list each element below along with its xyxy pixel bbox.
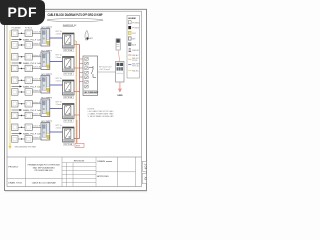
wire string 1 A1-A2 with connector xyxy=(18,33,25,34)
sheet inner border frame xyxy=(7,11,142,186)
svg-text:3. JALUR KABEL SESUAI GBR: 3. JALUR KABEL SESUAI GBR xyxy=(88,115,115,118)
svg-text:GROUNDING SYSTEM: GROUNDING SYSTEM xyxy=(15,146,37,148)
svg-text:DRAW. TITLE: DRAW. TITLE xyxy=(8,181,22,184)
cable arrow annotation string 2 xyxy=(12,62,46,65)
SCC combiner unit 4 box with equipment icon xyxy=(41,99,50,117)
sheet bottom shadow xyxy=(5,191,147,192)
cable arrow annotation string 3 xyxy=(12,86,46,89)
combiner main breaker symbol xyxy=(89,66,96,78)
inverter 2 box xyxy=(63,57,75,72)
cable arrow annotation string 1 xyxy=(12,39,46,42)
legend item: inverter xyxy=(128,37,131,40)
svg-text:A3: A3 xyxy=(143,177,147,181)
svg-text:PEMBANGUNAN PLTS TERPUSAT: PEMBANGUNAN PLTS TERPUSAT xyxy=(28,164,61,167)
legend item: string cable (purple) xyxy=(128,64,131,66)
wire string 4 rowB to combiner icon xyxy=(32,114,43,116)
svg-text:LEGEND: LEGEND xyxy=(128,18,137,20)
DC wire unit 4 to inverter (purple) xyxy=(50,102,63,109)
PV string 5 module box A1 xyxy=(12,124,19,131)
svg-text:+ BC 10 mm2: + BC 10 mm2 xyxy=(99,69,110,71)
SCC combiner unit 3 box with equipment icon xyxy=(41,76,50,94)
PV string 1 module box A2 xyxy=(25,30,32,37)
legend item: DC cable (orange) xyxy=(128,58,131,60)
inverter 3 box xyxy=(63,80,75,95)
notes text block xyxy=(88,108,115,118)
svg-text:NYY: NYY xyxy=(76,145,81,147)
wire string 3 A1-A2 with connector xyxy=(18,80,25,81)
PV string 4 module box B1 xyxy=(12,112,19,119)
svg-text:PV1-F: PV1-F xyxy=(132,60,138,62)
legend item: AC box (gray) xyxy=(128,43,131,46)
AC combiner box panel xyxy=(83,56,99,96)
wire string 2 B1-B2 with connector xyxy=(18,68,25,69)
title block: revision table xyxy=(62,157,96,187)
wire string 3 rowA to combiner icon, label xyxy=(32,78,43,80)
combiner breaker cell 4 xyxy=(85,71,88,74)
svg-text:INV 3kVA: INV 3kVA xyxy=(64,96,72,99)
sheet number margin boxes (rotated) xyxy=(142,161,147,171)
PV string 4 module box A1 xyxy=(12,101,19,108)
orange grounding wire from inverter 1 xyxy=(74,41,76,145)
left yellow ground wire (vertical) xyxy=(9,30,11,144)
PV string 2 module box A1 xyxy=(12,54,19,61)
svg-text:2.5mm: 2.5mm xyxy=(56,127,62,129)
PV string 5 module box A2 xyxy=(25,124,32,131)
inverter 1 name label below xyxy=(64,49,74,52)
combiner bottom label strip xyxy=(84,90,97,94)
inverter 4 name label below xyxy=(64,120,74,123)
inverter 5 name label below xyxy=(64,143,74,146)
legend item: AC cable (red) xyxy=(128,54,131,56)
svg-text:2.5mm: 2.5mm xyxy=(56,33,62,35)
svg-text:INV 2kVA: INV 2kVA xyxy=(64,73,72,76)
svg-text:1. ALL KABEL TRAY HOTDIP GALV: 1. ALL KABEL TRAY HOTDIP GALV xyxy=(88,110,115,113)
wire string 2 rowB to combiner icon xyxy=(32,67,43,69)
svg-text:2.5mm: 2.5mm xyxy=(56,57,62,59)
red drop wire to bottom label xyxy=(76,120,78,146)
wire string 3 rowB to combiner icon xyxy=(32,90,43,92)
svg-text:PV ARRAY: PV ARRAY xyxy=(12,27,22,30)
svg-text:CABLE BLOCK DIAGRAM: CABLE BLOCK DIAGRAM xyxy=(32,181,56,184)
DC wire unit 2 to inverter (purple) xyxy=(50,55,63,62)
svg-text:KBL BC: KBL BC xyxy=(132,70,139,72)
wire string 5 B1-B2 with connector xyxy=(18,138,25,139)
wire combiner to kwh meter with label xyxy=(98,67,116,72)
AC wire inverter 5 to bus (red) xyxy=(74,138,80,140)
PV string 3 module box A1 xyxy=(12,77,19,84)
combiner breaker cell 1 xyxy=(85,58,88,61)
DC wire unit 1 to inverter (purple) xyxy=(50,31,63,38)
inverter 3 name label below xyxy=(64,96,74,99)
svg-text:PROJECT: PROJECT xyxy=(8,166,19,168)
wire string 3 B1-B2 with connector xyxy=(18,91,25,92)
kwh meter box xyxy=(116,62,125,83)
SCC combiner unit 2 box with equipment icon xyxy=(41,52,50,70)
wire string 1 rowA to combiner icon, label xyxy=(32,31,43,33)
legend item: kwh meter xyxy=(128,48,139,52)
PV string 2 module box B2 xyxy=(25,65,32,72)
legend item: PV box (black) xyxy=(128,26,131,29)
lamp icon xyxy=(85,30,94,40)
svg-text:CABLE BLOCK DIAGRAM PLTS OFF G: CABLE BLOCK DIAGRAM PLTS OFF GRID 15 KWP xyxy=(48,13,104,17)
PV string 3 module box B1 xyxy=(12,89,19,96)
yellow ground arrow terminator xyxy=(8,144,36,150)
SCC combiner unit 1 box with equipment icon xyxy=(41,29,50,47)
svg-text:AC COMB BOX: AC COMB BOX xyxy=(85,91,99,94)
wire string 4 rowA to combiner icon, label xyxy=(32,102,43,104)
wire string 2 A1-A2 with connector xyxy=(18,56,25,57)
drop wire pole to kwh meter (salmon) xyxy=(118,50,120,62)
svg-text:1 OF: 1 OF xyxy=(143,164,147,170)
svg-text:2.5mm: 2.5mm xyxy=(56,104,62,106)
wire string 5 A1-A2 with connector xyxy=(18,127,25,128)
wire string 1 rowB to combiner icon xyxy=(32,43,43,45)
combiner breaker cell 7 xyxy=(85,85,88,88)
AC wire inverter 3 to bus (red) xyxy=(74,91,80,93)
utility pole mounted breaker icon xyxy=(116,39,120,50)
PV string 2 module box B1 xyxy=(12,65,19,72)
DC wire unit 3 to inverter (purple) xyxy=(50,78,63,85)
svg-text:2.5mm: 2.5mm xyxy=(56,80,62,82)
legend panel box xyxy=(127,16,140,79)
wire string 5 rowA to combiner icon, label xyxy=(32,125,43,127)
PV string 1 module box A1 xyxy=(12,30,19,37)
legend item: PV module xyxy=(128,21,131,24)
svg-text:APPROVED: APPROVED xyxy=(97,175,109,178)
legend item: SCC (yellow) xyxy=(128,31,131,34)
svg-text:REVISION: REVISION xyxy=(74,160,85,162)
wire string 5 rowB to combiner icon xyxy=(32,137,43,139)
combiner breaker cell 6 xyxy=(85,81,88,84)
PV string 3 module box B2 xyxy=(25,89,32,96)
combiner breaker cell 5 xyxy=(85,76,88,79)
SCC combiner unit 5 box with equipment icon xyxy=(41,123,50,141)
title block top rule xyxy=(7,156,142,158)
title block: project cell xyxy=(7,157,62,187)
PV string 3 module box A2 xyxy=(25,77,32,84)
svg-text:KWH M: KWH M xyxy=(132,50,139,52)
cable arrow annotation string 5 xyxy=(12,133,46,136)
combiner breaker cell 3 xyxy=(85,67,88,70)
wire string 4 B1-B2 with connector xyxy=(18,115,25,116)
PV string 2 module box A2 xyxy=(25,54,32,61)
svg-text:INV 4kVA: INV 4kVA xyxy=(64,120,72,123)
inverter column header label with underline xyxy=(63,25,77,27)
svg-text:PV BOX: PV BOX xyxy=(25,28,33,30)
svg-text:DRAWN: DRAWN xyxy=(97,160,105,163)
AC wire inverter 1 to bus (red) xyxy=(74,44,80,46)
PDF badge overlay xyxy=(0,0,45,25)
cable arrow annotation string 4 xyxy=(12,109,46,112)
DC wire unit 5 to inverter (purple) xyxy=(50,125,63,132)
svg-text:PV MOD: PV MOD xyxy=(132,22,140,24)
grid feed arrow (salmon) xyxy=(118,82,122,93)
AC wire inverter 2 to bus (red) xyxy=(74,67,80,69)
svg-text:GRID: GRID xyxy=(117,95,123,97)
inverter 4 box xyxy=(63,104,75,119)
PV string 1 module box B1 xyxy=(12,42,19,49)
PV string 5 module box B2 xyxy=(25,136,32,143)
inverter 5 box xyxy=(63,127,75,142)
drawing sheet outer frame xyxy=(5,9,147,190)
AC bus (red) vertical xyxy=(79,45,81,139)
PV string 1 module box B2 xyxy=(25,42,32,49)
wire string 4 A1-A2 with connector xyxy=(18,103,25,104)
title block: drawn / approved cells xyxy=(96,157,136,187)
legend item: BC cable (yellow) xyxy=(128,70,131,72)
inverter 1 box xyxy=(63,33,75,48)
svg-text:PV BOX: PV BOX xyxy=(132,28,139,30)
PV string 5 module box B1 xyxy=(12,136,19,143)
red feeder stubs into AC combiner xyxy=(80,59,84,82)
PV string 4 module box B2 xyxy=(25,112,32,119)
svg-text:INV 5kVA: INV 5kVA xyxy=(64,143,72,146)
wire string 2 rowA to combiner icon, label xyxy=(32,55,43,57)
title underline ellipse banner xyxy=(47,19,103,22)
inverter 2 name label below xyxy=(64,73,74,76)
red cable label box bottom xyxy=(75,143,84,147)
svg-text:2. KABEL POWER PAKE TRAY: 2. KABEL POWER PAKE TRAY xyxy=(88,113,115,116)
svg-text:KBL AC: KBL AC xyxy=(132,54,139,57)
svg-text:INV 1kVA: INV 1kVA xyxy=(64,49,72,52)
combiner breaker cell 2 xyxy=(85,62,88,65)
svg-text:KAB. KEPULAUAN ARU: KAB. KEPULAUAN ARU xyxy=(33,166,55,169)
AC wire inverter 4 to bus (red) xyxy=(74,114,80,116)
PV string 4 module box A2 xyxy=(25,101,32,108)
wire string 1 B1-B2 with connector xyxy=(18,44,25,45)
svg-text:NYY 4C: NYY 4C xyxy=(132,66,139,68)
svg-text:PROVINSI MALUKU: PROVINSI MALUKU xyxy=(34,169,53,172)
